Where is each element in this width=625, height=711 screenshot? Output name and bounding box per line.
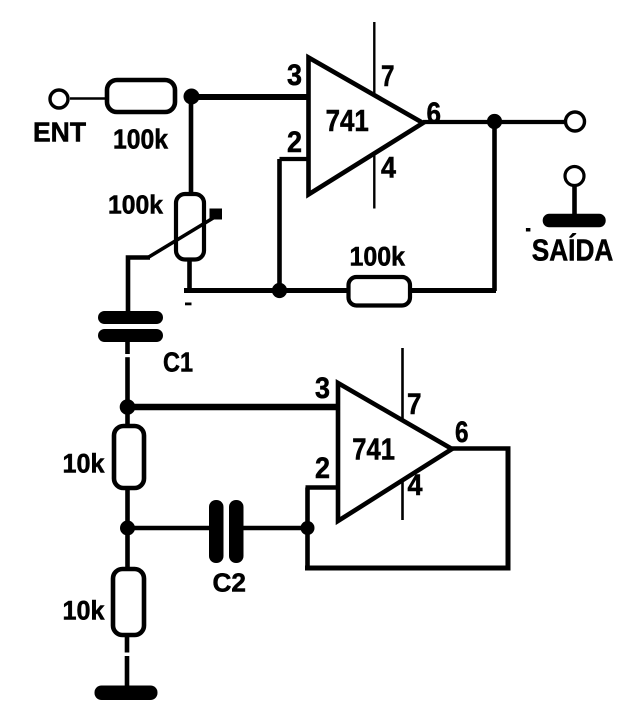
potentiometer wiper arrow xyxy=(148,209,222,258)
svg-text:6: 6 xyxy=(455,416,469,449)
wire U2 feedback right vertical xyxy=(506,449,511,571)
wire U2 pin2 vertical xyxy=(305,488,310,569)
artifact dash below pot xyxy=(185,303,192,306)
input terminal ENT xyxy=(50,90,68,108)
svg-text:4: 4 xyxy=(381,152,396,185)
wire U1 pin2 vertical xyxy=(277,159,282,291)
svg-text:SAÍDA: SAÍDA xyxy=(532,233,614,268)
power line U1 pins 7 and 4 xyxy=(373,22,375,209)
svg-text:10k: 10k xyxy=(63,449,106,479)
wire U1 pin2 stub xyxy=(280,157,310,161)
wire C1 down to node xyxy=(125,342,130,408)
svg-text:6: 6 xyxy=(427,97,442,130)
svg-text:3: 3 xyxy=(315,372,330,405)
svg-text:2: 2 xyxy=(287,126,302,159)
svg-text:100k: 100k xyxy=(108,190,164,220)
resistor R5 100k feedback xyxy=(349,277,411,306)
wire wiper jog xyxy=(128,258,150,313)
wire R3 to node xyxy=(125,488,130,530)
node junction U1 feedback xyxy=(272,283,287,298)
wire feedback left segment xyxy=(184,288,350,293)
SAIDA terminal bar xyxy=(543,214,606,228)
svg-text:ENT: ENT xyxy=(33,117,86,148)
wire C2 to U2 pin2 node xyxy=(244,526,309,531)
wire node to C2 xyxy=(128,526,211,531)
svg-text:7: 7 xyxy=(407,388,422,421)
artifact dot left of SAIDA xyxy=(526,228,531,232)
output terminal xyxy=(566,112,585,131)
wire junction to U1 pin3 xyxy=(192,94,310,100)
wire junction down to potentiometer xyxy=(189,96,194,196)
svg-text:3: 3 xyxy=(287,59,302,92)
capacitor C1 top plate xyxy=(98,311,163,324)
resistor R1 100k xyxy=(107,80,175,112)
svg-text:100k: 100k xyxy=(350,242,406,272)
svg-text:741: 741 xyxy=(352,433,395,467)
wire input to R1 xyxy=(70,97,108,100)
svg-text:C1: C1 xyxy=(163,347,193,378)
ground bar bottom xyxy=(95,686,158,701)
node junction R1 output xyxy=(184,89,200,105)
wire pot bottom xyxy=(187,260,192,291)
power line U2 pins 7 and 4 xyxy=(401,348,404,520)
SAIDA terminal stem xyxy=(572,185,577,215)
wire node to R4 xyxy=(125,528,130,571)
node junction R3 / R4 / C2 xyxy=(120,521,135,536)
svg-text:100k: 100k xyxy=(113,124,169,155)
svg-text:7: 7 xyxy=(381,60,395,93)
wire feedback right segment xyxy=(410,288,496,293)
resistor R4 10k xyxy=(113,569,144,635)
wire feedback right vertical xyxy=(492,122,497,291)
svg-text:2: 2 xyxy=(315,452,330,485)
artifact white notch wire below C1 xyxy=(125,354,130,357)
wire R4 to ground xyxy=(125,635,130,688)
svg-text:741: 741 xyxy=(326,104,369,138)
artifact white notch wire above ground xyxy=(124,653,129,657)
op-amp U2 triangle xyxy=(338,383,452,521)
capacitor C1 bottom plate xyxy=(98,329,163,342)
op-amp U1 triangle xyxy=(309,58,424,195)
capacitor C2 left plate xyxy=(209,500,224,563)
wire U1 pin6 output xyxy=(423,120,565,124)
wire U2 pin6 output xyxy=(452,446,511,451)
wire U2 feedback bottom xyxy=(305,566,508,571)
svg-text:4: 4 xyxy=(408,469,423,502)
svg-text:10k: 10k xyxy=(63,596,106,626)
SAIDA terminal circle xyxy=(565,167,584,186)
svg-text:C2: C2 xyxy=(213,568,247,598)
wire node to U2 pin3 xyxy=(128,404,340,411)
node junction output xyxy=(487,114,502,129)
node junction U2 pin2 / feedback xyxy=(301,521,315,535)
node junction C1 / R3 / U2 pin3 xyxy=(120,399,136,415)
wire U2 pin2 stub xyxy=(306,485,340,490)
capacitor C2 right plate xyxy=(229,500,244,563)
wire node down to R3 xyxy=(125,407,130,428)
potentiometer R2 100k body xyxy=(176,194,204,260)
resistor R3 10k xyxy=(114,426,144,488)
